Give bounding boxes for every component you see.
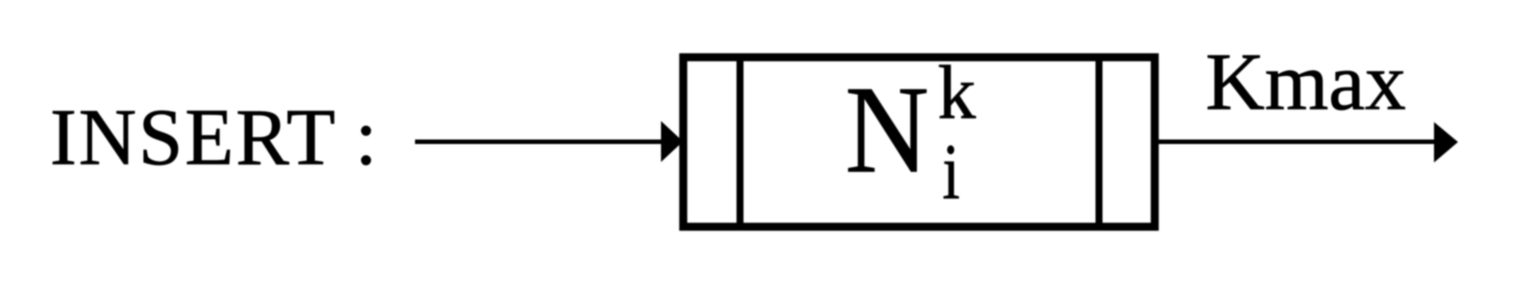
block buffer box <box>683 57 1155 227</box>
arrowhead output <box>1434 122 1458 163</box>
partition line right <box>1096 57 1103 227</box>
svg-text:k: k <box>938 51 976 135</box>
svg-text:N: N <box>845 62 929 200</box>
wire output <box>1155 139 1438 144</box>
partition line left <box>737 57 744 227</box>
svg-text:i: i <box>942 130 960 217</box>
svg-text:INSERT: INSERT <box>50 94 337 182</box>
svg-text::: : <box>355 94 377 182</box>
arrowhead input <box>661 121 683 162</box>
svg-text:Kmax: Kmax <box>1206 36 1406 127</box>
wire input <box>415 139 665 144</box>
